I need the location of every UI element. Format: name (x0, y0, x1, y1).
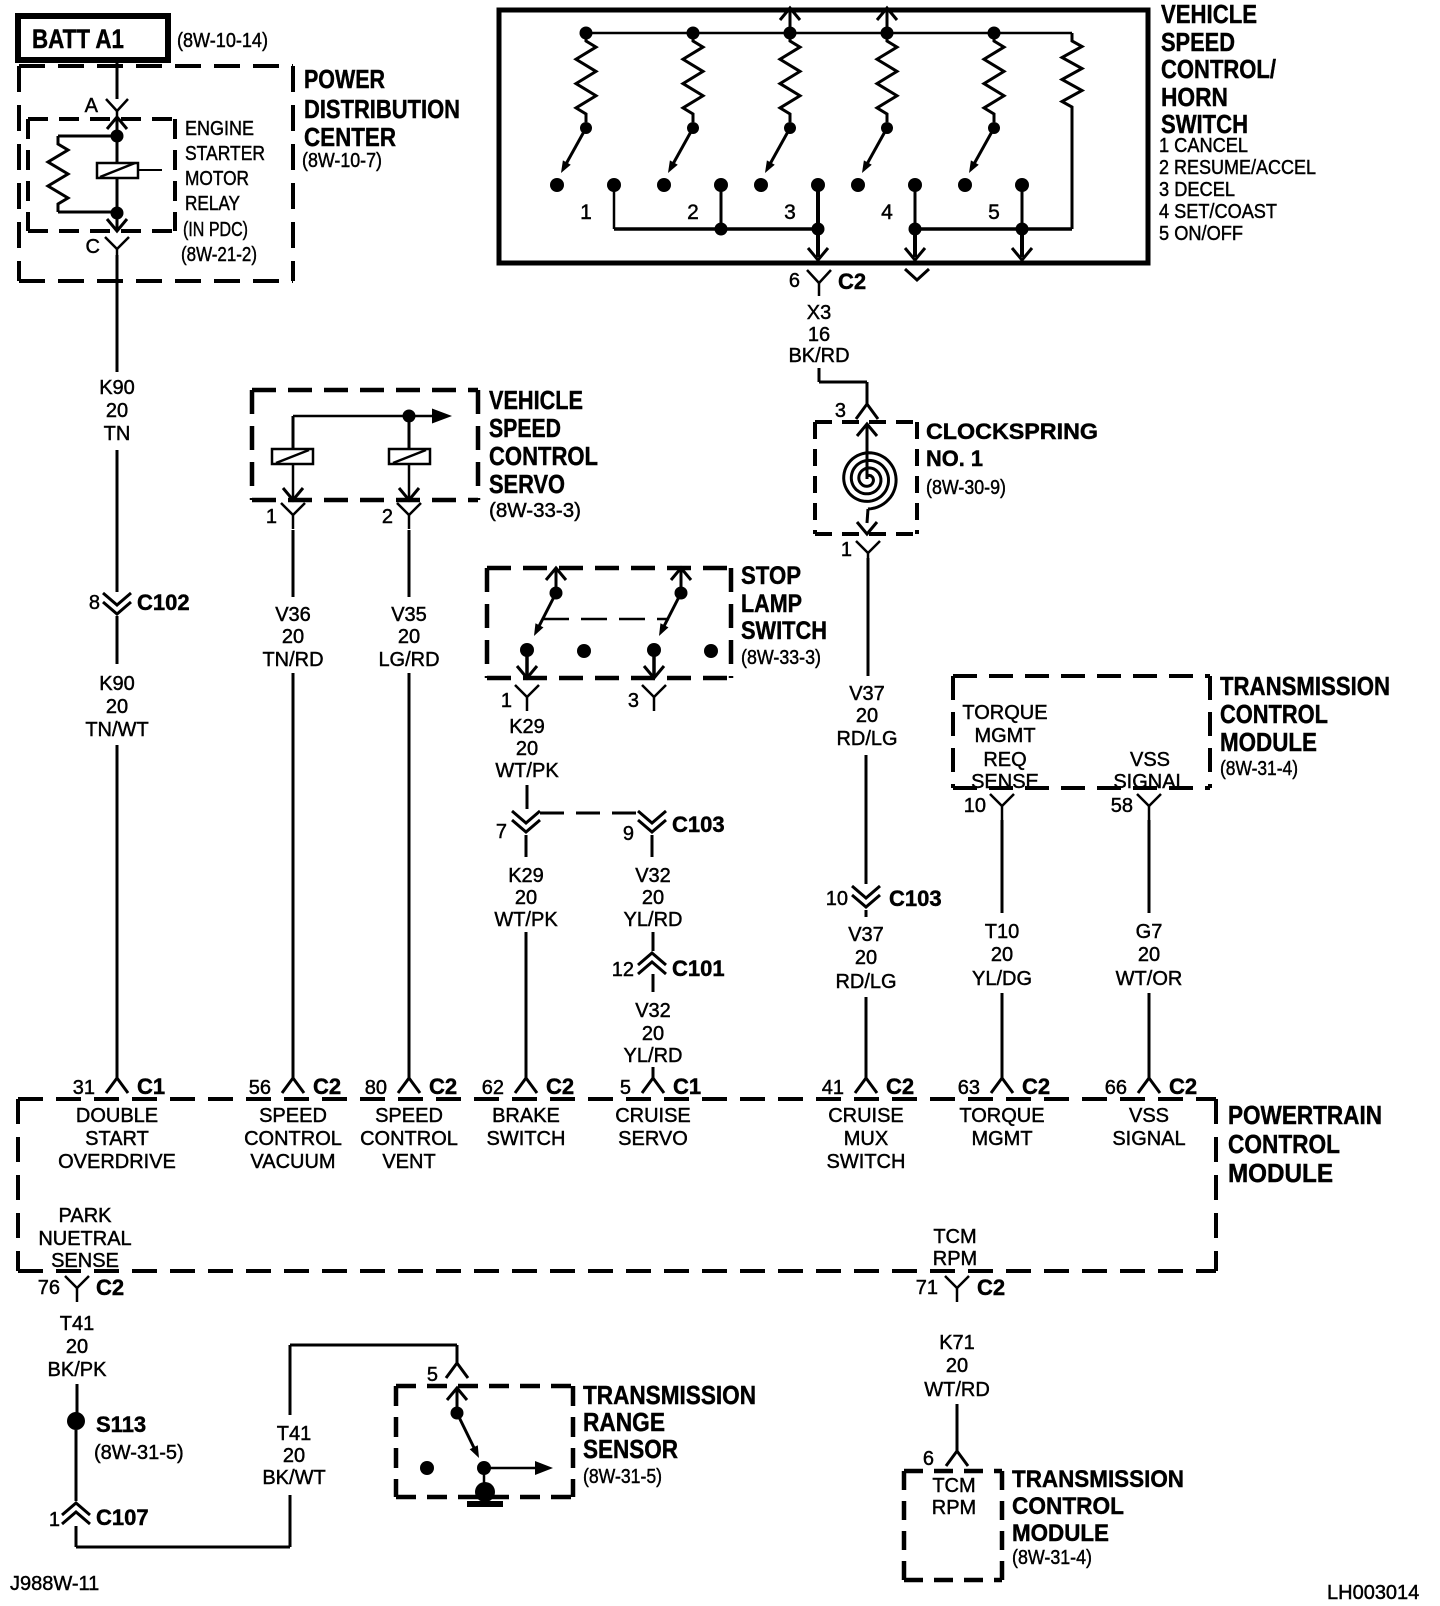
junction dot relay bottom (111, 207, 124, 220)
svg-text:C1: C1 (673, 1074, 701, 1099)
svg-text:WT/PK: WT/PK (494, 909, 558, 931)
svg-text:3: 3 (784, 201, 796, 224)
label VSS SIGNAL (1113, 749, 1186, 793)
svg-text:6: 6 (923, 1448, 934, 1470)
svg-text:ENGINE: ENGINE (185, 118, 254, 140)
svg-text:V35: V35 (391, 604, 427, 626)
svg-text:A: A (85, 95, 99, 117)
svg-text:C: C (86, 236, 100, 258)
svg-text:3 DECEL: 3 DECEL (1159, 179, 1235, 201)
svg-text:71: 71 (916, 1277, 938, 1299)
svg-text:STARTER: STARTER (185, 143, 265, 165)
wire below C103 pin 10 (865, 910, 868, 917)
servo pin 2 arrow (399, 464, 419, 500)
connector C103 pin 9 (623, 811, 725, 845)
PCM pin 63 connector C2 (958, 1074, 1050, 1099)
label T10 20 YL/DG (972, 921, 1032, 990)
output drop arrow mid (905, 229, 925, 260)
resistor R5 top dot (988, 27, 1001, 40)
relay coil element (97, 136, 162, 213)
svg-text:LG/RD: LG/RD (378, 649, 439, 671)
svg-text:RPM: RPM (933, 1248, 977, 1270)
svg-text:(8W-10-7): (8W-10-7) (302, 150, 382, 172)
svg-text:5: 5 (427, 1364, 438, 1386)
range sensor contact dot (477, 1461, 491, 1475)
switch position label 3 (784, 201, 796, 224)
svg-text:SIGNAL: SIGNAL (1113, 771, 1186, 793)
label TRANSMISSION CONTROL MODULE 2 (1012, 1466, 1184, 1569)
unmated connector half (905, 269, 929, 280)
contact dot 3 left (754, 178, 768, 192)
resistor R1 bottom dot (580, 122, 592, 134)
stop lamp pivot dot 1 (550, 587, 563, 600)
svg-text:SPEED: SPEED (489, 413, 561, 443)
svg-text:BK/WT: BK/WT (262, 1467, 325, 1489)
svg-text:1: 1 (49, 1509, 60, 1531)
PCM pin 62 connector C2 (482, 1074, 574, 1099)
svg-text:62: 62 (482, 1077, 504, 1099)
wire T41 run to range sensor (76, 1495, 290, 1547)
svg-text:(8W-10-14): (8W-10-14) (177, 30, 268, 52)
wire T10 to PCM pin 63 (1001, 993, 1004, 1078)
junction dot bus2 b (1016, 223, 1029, 236)
resistor R1 (576, 33, 596, 122)
svg-text:POWER: POWER (304, 64, 385, 94)
svg-text:CLOCKSPRING: CLOCKSPRING (926, 419, 1098, 444)
servo solenoid 2 (389, 416, 430, 464)
wire V36 upper (292, 530, 295, 597)
range sensor pivot dot (451, 1407, 464, 1420)
svg-text:1: 1 (841, 539, 852, 561)
wire T10 upper (1001, 820, 1004, 913)
connector C107 pin 1 (49, 1503, 149, 1531)
C103 coupling dashed line (540, 812, 638, 815)
resistor R1 top dot (580, 27, 593, 40)
svg-text:K71: K71 (939, 1332, 975, 1354)
svg-text:TORQUE: TORQUE (962, 702, 1047, 724)
contact dot 2 left (657, 178, 671, 192)
svg-text:WT/PK: WT/PK (495, 760, 559, 782)
svg-text:12: 12 (612, 959, 634, 981)
switch blade 2 (668, 128, 693, 173)
svg-text:58: 58 (1111, 795, 1133, 817)
label POWER DISTRIBUTION CENTER (302, 64, 460, 172)
wire V32 to C101 (652, 932, 655, 951)
battery feed box BATT A1 (18, 16, 168, 60)
svg-text:YL/DG: YL/DG (972, 968, 1032, 990)
label G7 20 WT/OR (1116, 921, 1183, 990)
wire below C103 pin 7 (525, 835, 528, 857)
svg-text:SIGNAL: SIGNAL (1112, 1128, 1185, 1150)
drop wire contact 5 (1012, 185, 1032, 260)
svg-text:J988W-11: J988W-11 (10, 1573, 99, 1595)
range sensor pin arrow (447, 1388, 467, 1413)
label T41 20 BK/PK (48, 1313, 108, 1381)
wire below C101 (652, 974, 655, 992)
label V37 20 RD/LG lower (835, 924, 896, 993)
svg-text:20: 20 (283, 1445, 305, 1467)
svg-text:20: 20 (66, 1336, 88, 1358)
svg-text:20: 20 (398, 626, 420, 648)
servo pin 1 arrow (283, 464, 303, 500)
svg-text:K90: K90 (99, 673, 135, 695)
svg-text:C101: C101 (672, 956, 725, 981)
svg-text:41: 41 (822, 1077, 844, 1099)
PCM pin 76 connector C2 (38, 1275, 124, 1302)
stop lamp contact dot 2 (647, 643, 661, 657)
svg-text:10: 10 (826, 888, 848, 910)
TCM pin 58 connector (1111, 794, 1161, 820)
svg-text:(8W-31-4): (8W-31-4) (1220, 758, 1298, 780)
stop lamp spare dot 1 (577, 644, 591, 658)
wire K29 to PCM pin 62 (525, 932, 528, 1078)
svg-text:C2: C2 (313, 1074, 341, 1099)
label POWERTRAIN CONTROL MODULE (1228, 1100, 1382, 1188)
stop lamp blade 2 (659, 593, 681, 636)
svg-text:CRUISE: CRUISE (828, 1105, 904, 1127)
svg-text:MOTOR: MOTOR (185, 168, 249, 190)
svg-text:20: 20 (516, 738, 538, 760)
label V35 20 LG/RD (378, 604, 439, 671)
resistor R4 bottom dot (881, 122, 893, 134)
resistor R3 top dot (784, 27, 797, 40)
resistor R5 bottom dot (988, 122, 1000, 134)
svg-text:RELAY: RELAY (185, 193, 240, 215)
svg-text:SWITCH: SWITCH (487, 1128, 566, 1150)
resistor R4 top dot (881, 27, 894, 40)
svg-text:T41: T41 (277, 1423, 311, 1445)
contact dot 5 right (1015, 178, 1029, 192)
switch position label 5 (988, 201, 1000, 224)
svg-text:SERVO: SERVO (618, 1128, 688, 1150)
label CRUISE SERVO (615, 1105, 691, 1150)
label K90 20 TN/WT (85, 673, 148, 741)
svg-text:20: 20 (991, 944, 1013, 966)
wire T41 to splice (76, 1384, 79, 1413)
svg-text:RD/LG: RD/LG (835, 971, 896, 993)
label TCM RPM pcm (933, 1226, 977, 1270)
connector C102 pin 8 (89, 590, 190, 615)
bus arrow up left (780, 8, 800, 33)
svg-text:K29: K29 (509, 716, 545, 738)
svg-text:1: 1 (266, 506, 277, 528)
connector C103 pin 7 (496, 811, 540, 843)
svg-text:C2: C2 (96, 1275, 124, 1300)
svg-text:C103: C103 (672, 812, 725, 837)
svg-text:4: 4 (881, 201, 893, 224)
svg-text:1: 1 (501, 690, 512, 712)
svg-text:2 RESUME/ACCEL: 2 RESUME/ACCEL (1159, 157, 1316, 179)
wire V35 upper (408, 530, 411, 597)
svg-text:S113: S113 (96, 1412, 146, 1437)
range sensor output arrow (484, 1461, 553, 1475)
pin A connector (85, 95, 128, 117)
engine starter motor relay dashed box (28, 119, 175, 231)
transmission control module 2 dashed box (904, 1471, 1002, 1580)
svg-text:C2: C2 (838, 269, 866, 294)
svg-text:5: 5 (988, 201, 1000, 224)
svg-text:WT/RD: WT/RD (924, 1379, 990, 1401)
TCM pin 10 connector (964, 794, 1014, 820)
svg-text:80: 80 (365, 1077, 387, 1099)
svg-text:63: 63 (958, 1077, 980, 1099)
svg-text:NUETRAL: NUETRAL (38, 1228, 131, 1250)
stop lamp contact dot 1 (520, 643, 534, 657)
drop wire from contact 2 (720, 185, 723, 229)
PCM pin 71 connector C2 (916, 1275, 1005, 1302)
svg-text:SPEED: SPEED (1161, 27, 1235, 57)
svg-text:31: 31 (73, 1077, 95, 1099)
wire K71 to TCM (956, 1404, 959, 1451)
svg-text:TRANSMISSION: TRANSMISSION (1220, 671, 1390, 701)
PCM pin 5 connector C1 (620, 1074, 701, 1099)
resistor R2 (683, 33, 703, 122)
wire from BATT A1 to PDC pin A (116, 60, 119, 99)
svg-text:SENSOR: SENSOR (583, 1434, 678, 1464)
label V32 20 YL/RD mid (624, 865, 683, 931)
svg-text:CONTROL/: CONTROL/ (1161, 54, 1276, 84)
svg-text:DISTRIBUTION: DISTRIBUTION (304, 94, 460, 124)
svg-text:BK/RD: BK/RD (788, 345, 849, 367)
range sensor ground wire (483, 1468, 486, 1490)
bus arrow up right (877, 8, 897, 33)
clockspring pin 3 connector (835, 400, 878, 422)
svg-text:66: 66 (1105, 1077, 1127, 1099)
svg-text:(8W-31-5): (8W-31-5) (583, 1466, 662, 1488)
svg-text:20: 20 (855, 947, 877, 969)
svg-text:SENSE: SENSE (51, 1250, 119, 1272)
svg-text:SPEED: SPEED (259, 1105, 327, 1127)
PCM pin 41 connector C2 (822, 1074, 914, 1099)
clockspring no.1 dashed box (815, 422, 917, 534)
PCM pin 80 connector C2 (365, 1074, 457, 1099)
label TORQUE MGMT REQ SENSE (962, 702, 1047, 793)
switch position label 4 (881, 201, 893, 224)
powertrain control module dashed box (18, 1099, 1216, 1271)
label T41 20 BK/WT (262, 1423, 325, 1489)
svg-text:CONTROL: CONTROL (360, 1128, 458, 1150)
svg-text:NO. 1: NO. 1 (926, 446, 983, 471)
wire V37 to PCM pin 41 (865, 997, 868, 1078)
svg-text:5 ON/OFF: 5 ON/OFF (1159, 223, 1243, 245)
svg-text:TN/WT: TN/WT (85, 719, 148, 741)
svg-text:TN/RD: TN/RD (262, 649, 323, 671)
resistor R6 (1062, 33, 1082, 229)
label TORQUE MGMT (959, 1105, 1044, 1150)
svg-text:BK/PK: BK/PK (48, 1359, 108, 1381)
junction dot bus2 a (909, 223, 922, 236)
contact dot 4 right (908, 178, 922, 192)
svg-text:BATT A1: BATT A1 (32, 24, 124, 54)
svg-text:SWITCH: SWITCH (827, 1151, 906, 1173)
relay pin arrow at bottom edge (107, 213, 127, 231)
contact dot 1 right (607, 178, 621, 192)
svg-text:K90: K90 (99, 377, 135, 399)
svg-text:56: 56 (249, 1077, 271, 1099)
svg-text:76: 76 (38, 1277, 60, 1299)
ground (467, 1482, 503, 1507)
svg-text:C107: C107 (96, 1505, 149, 1530)
svg-text:V32: V32 (635, 865, 671, 887)
svg-text:C2: C2 (546, 1074, 574, 1099)
svg-text:1: 1 (580, 201, 592, 224)
label K90 20 TN (99, 377, 135, 445)
bus segment lower right (915, 185, 1072, 229)
range sensor spare dot (420, 1461, 434, 1475)
svg-text:CENTER: CENTER (304, 122, 396, 152)
connector C103 pin 10 (826, 886, 942, 911)
svg-text:10: 10 (964, 795, 986, 817)
label VEHICLE SPEED CONTROL SERVO (489, 385, 598, 522)
servo junction dot (403, 410, 416, 423)
label PARK NUETRAL SENSE (38, 1205, 131, 1272)
svg-text:X3: X3 (807, 302, 831, 324)
svg-text:C2: C2 (429, 1074, 457, 1099)
servo pin 2 connector (382, 503, 421, 529)
svg-text:8: 8 (89, 592, 100, 614)
switch blade 3 (765, 128, 790, 173)
clockspring coil spiral (844, 453, 896, 509)
svg-text:SENSE: SENSE (971, 771, 1039, 793)
svg-text:MUX: MUX (844, 1128, 888, 1150)
TCM pin 6 connector (923, 1448, 968, 1470)
svg-text:SERVO: SERVO (489, 469, 565, 499)
svg-text:WT/OR: WT/OR (1116, 968, 1183, 990)
stop lamp pivot dot 2 (675, 587, 688, 600)
svg-text:C2: C2 (977, 1275, 1005, 1300)
contact dot 5 left (958, 178, 972, 192)
junction dot relay top (111, 130, 124, 143)
splice S113 (67, 1412, 184, 1464)
transmission control module dashed box (953, 676, 1210, 788)
svg-text:4 SET/COAST: 4 SET/COAST (1159, 201, 1277, 223)
stop lamp pin 1 connector (501, 685, 539, 712)
svg-text:OVERDRIVE: OVERDRIVE (58, 1151, 176, 1173)
wire V35 to PCM pin 80 (408, 673, 411, 1078)
pin C connector (86, 236, 129, 258)
svg-text:1 CANCEL: 1 CANCEL (1159, 135, 1248, 157)
svg-text:YL/RD: YL/RD (624, 1045, 683, 1067)
svg-text:POWERTRAIN: POWERTRAIN (1228, 1100, 1382, 1130)
PCM pin 56 connector C2 (249, 1074, 341, 1099)
switch position label 2 (687, 201, 699, 224)
label DOUBLE START OVERDRIVE (58, 1105, 176, 1173)
stop lamp pin 3 arrow bottom (644, 650, 664, 678)
svg-text:(8W-33-3): (8W-33-3) (489, 500, 581, 522)
relay coil resistor (48, 136, 117, 212)
clockspring pin arrow bottom (857, 509, 877, 534)
sheet number LH003014 (1327, 1582, 1419, 1604)
svg-text:REQ: REQ (983, 749, 1026, 771)
svg-text:TRANSMISSION: TRANSMISSION (1012, 1466, 1184, 1493)
svg-text:VSS: VSS (1129, 1105, 1169, 1127)
stop lamp blade 1 (534, 593, 556, 636)
resistor R3 bottom dot (784, 122, 796, 134)
svg-text:VSS: VSS (1130, 749, 1170, 771)
sheet number J988W-11 (10, 1573, 99, 1595)
svg-text:STOP: STOP (741, 562, 801, 590)
label K71 20 WT/RD (924, 1332, 990, 1401)
connector C2 pin 6 below box (789, 269, 866, 296)
wire below C103 pin 9 (651, 835, 654, 857)
svg-text:CRUISE: CRUISE (615, 1105, 691, 1127)
svg-text:20: 20 (642, 887, 664, 909)
servo pin 1 connector (266, 503, 305, 529)
svg-text:HORN: HORN (1161, 82, 1228, 112)
servo internal wire with arrow (293, 409, 452, 450)
wire K90 segment below PDC (116, 255, 119, 372)
svg-text:CONTROL: CONTROL (244, 1128, 342, 1150)
label SPEED CONTROL VENT (360, 1105, 458, 1173)
svg-text:20: 20 (946, 1355, 968, 1377)
svg-text:K29: K29 (508, 865, 544, 887)
svg-text:LH003014: LH003014 (1327, 1582, 1419, 1604)
wire K29 to C103 (526, 785, 529, 809)
svg-text:V37: V37 (849, 683, 885, 705)
svg-text:RD/LG: RD/LG (836, 728, 897, 750)
label TRANSMISSION RANGE SENSOR (583, 1380, 756, 1488)
svg-text:DOUBLE: DOUBLE (76, 1105, 158, 1127)
range sensor blade (457, 1413, 479, 1458)
wire splice to C107 (75, 1430, 78, 1501)
svg-text:BRAKE: BRAKE (492, 1105, 560, 1127)
relay pin arrow at top edge (107, 117, 127, 136)
svg-text:20: 20 (106, 400, 128, 422)
stop lamp pin arrow top 1 (546, 568, 566, 593)
PCM pin 31 connector C1 (73, 1074, 165, 1099)
wire V37 upper (867, 558, 870, 676)
svg-text:TORQUE: TORQUE (959, 1105, 1044, 1127)
PCM pin 66 connector C2 (1105, 1074, 1197, 1099)
svg-text:(IN PDC): (IN PDC) (183, 219, 248, 241)
svg-text:RPM: RPM (932, 1497, 976, 1519)
svg-text:C2: C2 (1169, 1074, 1197, 1099)
svg-text:VEHICLE: VEHICLE (489, 385, 583, 415)
stop lamp spare dot 2 (704, 644, 718, 658)
svg-text:SPEED: SPEED (375, 1105, 443, 1127)
vehicle speed control servo dashed box (252, 390, 478, 500)
svg-text:TCM: TCM (933, 1226, 976, 1248)
svg-text:20: 20 (106, 696, 128, 718)
resistor R2 top dot (687, 27, 700, 40)
svg-text:VACUUM: VACUUM (250, 1151, 335, 1173)
svg-text:RANGE: RANGE (583, 1407, 665, 1437)
label V32 20 YL/RD lower (624, 1000, 683, 1067)
svg-text:16: 16 (808, 324, 830, 346)
label TCM RPM (932, 1475, 976, 1519)
svg-text:CONTROL: CONTROL (1220, 699, 1328, 729)
svg-text:3: 3 (628, 690, 639, 712)
svg-text:C2: C2 (886, 1074, 914, 1099)
connector C101 pin 12 (612, 953, 725, 981)
label CLOCKSPRING NO. 1 (926, 419, 1098, 499)
svg-text:MGMT: MGMT (971, 1128, 1032, 1150)
svg-text:V37: V37 (848, 924, 884, 946)
svg-text:(8W-33-3): (8W-33-3) (741, 647, 821, 669)
label K29 20 WT/PK upper (495, 716, 559, 782)
svg-text:VENT: VENT (382, 1151, 435, 1173)
bus segment lower left (614, 185, 818, 229)
junction dot bus1 b (812, 223, 825, 236)
switch blade 1 (561, 128, 586, 173)
svg-text:3: 3 (835, 400, 846, 422)
svg-text:20: 20 (282, 626, 304, 648)
svg-text:(8W-31-5): (8W-31-5) (94, 1442, 184, 1464)
svg-text:20: 20 (1138, 944, 1160, 966)
svg-text:C102: C102 (137, 590, 190, 615)
label STOP LAMP SWITCH (741, 562, 827, 669)
label VSS SIGNAL pcm (1112, 1105, 1185, 1150)
